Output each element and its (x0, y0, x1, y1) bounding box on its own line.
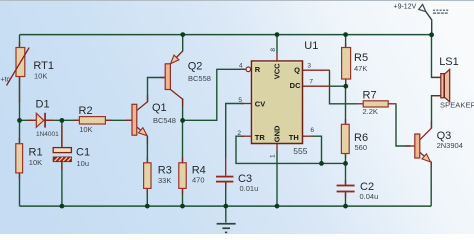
wire power drop to rail junction (426, 12, 432, 35)
wire 555 output pin3 to R7 (330, 70, 358, 104)
lead 555 VCC pin8 (276, 53, 278, 62)
lead C3 bottom (225, 182, 227, 189)
svg-text:BC548: BC548 (153, 116, 176, 125)
svg-text:C1: C1 (76, 146, 90, 158)
wire 555 TR pin2 run to R6/C2 node (236, 136, 346, 163)
svg-text:DC: DC (290, 81, 301, 90)
wire node-A horizontal run D1/R2 to Q1 base (20, 119, 133, 121)
transistor Q3 2N3904 (415, 121, 463, 168)
node R6 / C2 / TR (343, 161, 348, 166)
svg-text:D1: D1 (36, 98, 50, 110)
transistor Q1 BC548 (132, 95, 176, 144)
svg-text:VCC: VCC (272, 63, 281, 79)
node C2 / ground rail (343, 204, 348, 209)
wire 555 TH pin6 drop (311, 136, 322, 163)
lead RT1 bottom (19, 76, 21, 103)
wire C2 bottom to ground rail (345, 192, 347, 206)
lead R6 bottom (345, 154, 347, 159)
lead R1 bottom (18, 173, 20, 179)
svg-text:2.2K: 2.2K (363, 107, 378, 116)
wire Q1 emitter to R3 (146, 136, 148, 163)
svg-text:R7: R7 (363, 90, 377, 102)
wire R4 to ground rail (182, 188, 184, 206)
svg-text:2: 2 (237, 130, 241, 137)
power terminal +9-12V (394, 3, 449, 13)
node Q2 collector / R4 / reset (180, 118, 185, 123)
lead speaker bottom (432, 95, 441, 97)
svg-text:555: 555 (293, 146, 307, 156)
svg-text:7: 7 (309, 79, 313, 86)
pin bubble reset (246, 67, 251, 72)
wire node to C2 top (345, 163, 347, 184)
wire R3 to ground rail (146, 188, 148, 206)
resistor R5 (342, 48, 368, 80)
node C1 / ground rail (60, 204, 65, 209)
svg-text:R5: R5 (354, 52, 368, 64)
svg-text:10u: 10u (77, 159, 90, 168)
lead R7 left (358, 103, 364, 105)
lead R5 top (345, 43, 347, 48)
node C3 / ground symbol / rail (223, 204, 228, 209)
lead R1 top (18, 138, 20, 144)
capacitor C1 10u electrolytic (53, 146, 90, 168)
wire top power rail (20, 34, 432, 36)
speaker LS1 (439, 56, 474, 109)
lead 555 Q pin3 (303, 69, 330, 71)
wire R5 bottom to pin7 node (345, 79, 347, 86)
node R5 / rail (343, 32, 348, 37)
svg-text:47K: 47K (354, 64, 367, 73)
svg-text:Q: Q (294, 65, 300, 74)
wire VCC pin8 from rail (276, 35, 278, 53)
svg-text:5: 5 (238, 97, 242, 104)
resistor R2 (79, 105, 106, 134)
svg-text:RT1: RT1 (33, 60, 54, 72)
svg-text:3: 3 (307, 62, 311, 69)
lead 555 reset pin4 (241, 68, 247, 70)
net label dashes (433, 10, 448, 13)
svg-text:R1: R1 (29, 146, 43, 158)
op-amp U1 555 timer body (237, 40, 318, 158)
lead R3 bottom (146, 188, 148, 194)
lead 555 GND pin1 (276, 143, 278, 151)
node pin7 / R5 / R6 (343, 84, 348, 89)
lead 555 TH pin6 (303, 135, 312, 137)
svg-text:TH: TH (289, 133, 299, 142)
svg-text:R6: R6 (354, 132, 368, 144)
wire 555 CV pin5 to C3 (226, 104, 244, 159)
wire 555 DC pin7 to R5/R6 node (331, 85, 346, 87)
lead speaker top (432, 76, 441, 78)
lead Q3 base (405, 145, 415, 147)
capacitor C3 0.01u (216, 173, 258, 193)
node C1 / R2 wire (60, 118, 65, 123)
diode D1 1N4001 (36, 98, 60, 138)
capacitor C2 0.04u (337, 181, 379, 201)
svg-text:R3: R3 (158, 164, 172, 176)
svg-text:+9-12V: +9-12V (394, 3, 417, 10)
lead R2 left (73, 119, 79, 121)
svg-text:+tc: +tc (1, 77, 11, 84)
svg-text:R: R (255, 65, 261, 74)
svg-text:4: 4 (239, 62, 243, 69)
lead C1 top (61, 126, 63, 148)
wire C1 column upper (61, 120, 63, 147)
svg-text:560: 560 (355, 143, 368, 152)
wire Q1 collector to Q2 base (148, 78, 166, 102)
wire C1 column lower (61, 162, 63, 207)
thermistor RT1 (1, 48, 54, 86)
lead R4 top (182, 157, 184, 164)
svg-text:GND: GND (272, 125, 281, 142)
wire GND pin1 to ground rail (276, 151, 278, 206)
wire R7 to Q3 base (396, 105, 411, 147)
wire C3 bottom to ground rail (225, 182, 227, 206)
svg-text:10K: 10K (29, 158, 42, 167)
node power / speaker / rail (429, 32, 434, 37)
lead C3 top (225, 158, 227, 176)
svg-text:6: 6 (310, 127, 314, 134)
ground (217, 223, 236, 233)
lead R5 bottom (345, 79, 347, 84)
svg-text:2N3904: 2N3904 (437, 141, 463, 150)
svg-text:10K: 10K (79, 125, 92, 134)
lead R3 top (146, 157, 148, 164)
resistor R3 (144, 163, 172, 189)
resistor R6 (341, 124, 368, 153)
svg-text:10K: 10K (34, 72, 47, 81)
svg-text:SPEAKER: SPEAKER (440, 101, 474, 110)
svg-text:R4: R4 (192, 164, 206, 176)
svg-text:Q1: Q1 (152, 102, 167, 114)
lead RT1 top (19, 42, 21, 48)
wire speaker top terminal (432, 35, 441, 78)
svg-text:TR: TR (255, 133, 266, 142)
lead D1 anode (28, 119, 37, 121)
wire bottom ground rail (20, 205, 432, 207)
svg-text:BC558: BC558 (188, 74, 211, 83)
lead C2 bottom (345, 192, 347, 197)
svg-text:CV: CV (255, 100, 265, 109)
svg-text:LS1: LS1 (439, 56, 459, 68)
svg-text:1N4001: 1N4001 (36, 131, 59, 138)
resistor R7 (363, 90, 389, 116)
svg-text:470: 470 (192, 176, 205, 185)
svg-text:33K: 33K (158, 176, 171, 185)
transistor Q2 BC558 (160, 51, 211, 106)
wire R4 column (182, 120, 184, 163)
node TH / TR wire (319, 161, 324, 166)
lead R7 right (388, 103, 396, 105)
svg-text:0.04u: 0.04u (360, 192, 379, 201)
wire speaker bottom to Q3 collector (432, 96, 441, 129)
svg-text:8: 8 (270, 48, 277, 52)
lead R6 top (345, 119, 347, 125)
wire pin7 node down to R6 (345, 86, 347, 124)
svg-text:U1: U1 (304, 40, 318, 52)
node A RT1/R1/D1 (17, 118, 22, 123)
wire Q2 collector down to node (182, 99, 184, 121)
lead R2 right (105, 119, 112, 121)
lead C2 top (345, 180, 347, 185)
lead 555 CV pin5 (241, 103, 252, 105)
node R4 / ground rail (180, 204, 185, 209)
node R3 / ground rail (145, 204, 150, 209)
lead Q1 base (126, 119, 132, 121)
lead 555 TR pin2 (241, 135, 252, 137)
wire right riser to Q3 emitter (430, 162, 432, 207)
wire node to 555 reset pin4 (183, 69, 245, 120)
svg-text:R2: R2 (79, 105, 93, 117)
svg-text:Q2: Q2 (188, 60, 203, 72)
wire R6 bottom to TR/TH node (345, 154, 347, 164)
lead C1 bottom (61, 162, 63, 171)
node Q2 emitter / rail (180, 32, 185, 37)
wire Q2 emitter to top rail (182, 35, 184, 52)
svg-text:0.01u: 0.01u (240, 184, 259, 193)
svg-text:Q3: Q3 (437, 130, 452, 142)
wire R5 top to rail (345, 35, 347, 48)
wire ground symbol stub (225, 206, 227, 223)
node VCC pin / rail (275, 32, 280, 37)
lead R4 bottom (182, 188, 184, 194)
lead 555 DC pin7 (303, 85, 331, 87)
lead D1 cathode (46, 119, 53, 121)
resistor R4 (179, 163, 206, 189)
node GND pin / ground rail (275, 204, 280, 209)
wire left column (RT1/R1 branch) (19, 35, 21, 207)
svg-text:1: 1 (269, 154, 276, 158)
resistor R1 (16, 144, 43, 173)
